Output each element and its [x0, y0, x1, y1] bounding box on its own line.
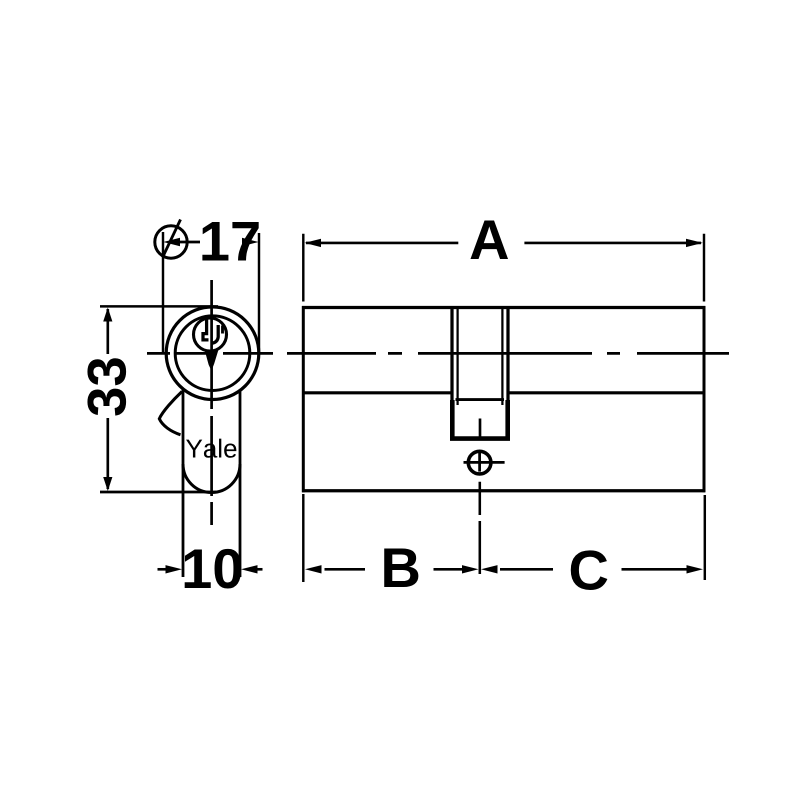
cam outer verticals: [452, 307, 508, 402]
dim 33 bottom extension line: [100, 491, 216, 494]
body rectangle left: [302, 306, 305, 492]
cylinder inner circle: [175, 316, 250, 391]
dim A line: [306, 242, 701, 245]
dim 17 arrow right: [242, 238, 259, 246]
Yale logo: [186, 439, 236, 458]
cylinder outer circle: [166, 307, 259, 400]
label B: [384, 548, 418, 587]
dim 17 left extension line: [162, 232, 164, 352]
dim 10 arrow right: [241, 565, 258, 573]
cam centerline below: [479, 482, 482, 574]
dim 33 arrow down: [103, 477, 112, 491]
dim A right extension: [703, 234, 705, 302]
label 33: [87, 358, 126, 415]
body mid line: [302, 391, 705, 394]
cam inner verticals: [458, 308, 503, 405]
position symbol cross vertical: [478, 451, 481, 471]
left view vertical centerline: [210, 280, 213, 525]
dim 17 line left: [179, 241, 200, 244]
dim 33 line upper: [106, 309, 109, 354]
dim 33 line lower: [106, 418, 109, 489]
dim A arrow left: [305, 239, 322, 247]
label A: [470, 220, 508, 259]
dim 33 arrow up: [103, 308, 112, 322]
dim C arrow center: [481, 565, 498, 573]
profile bottom arc: [183, 464, 240, 493]
dim B/C left extension: [302, 494, 304, 582]
dim B arrow left: [305, 565, 322, 573]
cam slot bottom: [456, 398, 505, 401]
dim 10 line left: [158, 568, 168, 571]
dim 10 arrow left: [166, 565, 183, 573]
body rectangle top: [302, 306, 705, 309]
keyhole tail: [205, 349, 218, 370]
dim A left extension: [302, 234, 304, 302]
cam claw front view: [159, 392, 182, 435]
diameter symbol circle: [155, 226, 187, 258]
cam body U: [450, 400, 510, 439]
dim C arrow right: [687, 565, 704, 573]
keyhole circle: [194, 318, 227, 351]
body rectangle bottom: [302, 489, 705, 492]
diameter symbol slash: [163, 220, 181, 257]
profile left edge + extension line: [182, 390, 185, 578]
dim 17 right extension line: [258, 233, 260, 352]
dim 10 line right: [256, 568, 263, 571]
dim 33 top extension line: [100, 305, 218, 307]
label C: [571, 550, 608, 590]
keyhole zigzag left: [203, 319, 209, 340]
dim A arrow right: [686, 239, 703, 247]
dim 17 arrow left: [163, 238, 180, 246]
keyhole tail slit: [211, 351, 213, 355]
profile right edge + extension line: [239, 391, 242, 578]
dim B line: [325, 568, 469, 571]
keyhole zigzag right outer: [221, 326, 224, 334]
position symbol cross horizontal: [464, 461, 505, 464]
label 10: [185, 549, 241, 589]
dim B arrow center: [462, 565, 479, 573]
dim C line: [500, 568, 693, 571]
label 17: [202, 222, 258, 261]
cam center tick: [479, 419, 482, 438]
keyhole zigzag right: [212, 325, 218, 343]
horizontal centerline: [147, 352, 729, 355]
body rectangle right: [703, 306, 706, 492]
dim B/C right extension: [704, 495, 706, 580]
position symbol circle: [468, 451, 491, 474]
